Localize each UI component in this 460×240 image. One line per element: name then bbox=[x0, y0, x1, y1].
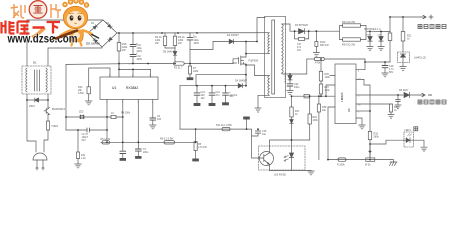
diode D5 bbox=[404, 92, 409, 97]
ground bottom rail bbox=[390, 160, 398, 166]
svg-text:100u: 100u bbox=[294, 86, 300, 89]
transistor Q2 bbox=[259, 146, 274, 171]
svg-text:R 100k: R 100k bbox=[337, 164, 345, 167]
IC U1 RX3842 bbox=[100, 77, 158, 100]
resistor R7 bbox=[187, 64, 194, 81]
svg-text:U4: U4 bbox=[347, 108, 351, 112]
TVS ZD22 bbox=[378, 31, 384, 50]
wire pin7 junction bbox=[119, 64, 151, 78]
wire bottom rail bbox=[328, 159, 391, 161]
svg-text:R2 51.7: R2 51.7 bbox=[174, 67, 183, 70]
svg-text:04V: 04V bbox=[82, 139, 87, 142]
svg-text:100k: 100k bbox=[313, 119, 319, 122]
mascot bbox=[61, 0, 99, 45]
svg-text:(U2 4N35): (U2 4N35) bbox=[274, 173, 286, 177]
bridge rectifier D1-D4 bbox=[88, 20, 117, 47]
wire pin3 chain bbox=[137, 100, 139, 143]
svg-text:470k: 470k bbox=[315, 62, 321, 65]
svg-text:400V: 400V bbox=[137, 58, 143, 61]
wire B1 bottom left lead bbox=[27, 94, 36, 152]
capacitor C8 bbox=[222, 86, 229, 106]
svg-text:LM324: LM324 bbox=[340, 92, 344, 102]
resistor R9 bbox=[111, 115, 116, 118]
resistor R4 bbox=[173, 33, 176, 52]
snubber loop C17 bbox=[295, 31, 309, 40]
capacitor C7 bbox=[135, 142, 141, 159]
svg-text:510 10-1 0.5W: 510 10-1 0.5W bbox=[216, 124, 232, 127]
LED U2 bbox=[284, 140, 294, 171]
wire gate pulldown bbox=[196, 75, 246, 86]
resistor R15 chain bbox=[117, 33, 121, 77]
svg-text:100k: 100k bbox=[193, 70, 199, 73]
wire pin comparator out bbox=[356, 110, 370, 112]
diode D4 1N4007 bbox=[238, 84, 242, 88]
svg-text:ZD1 1N5408: ZD1 1N5408 bbox=[86, 43, 100, 46]
svg-text:W 2k: W 2k bbox=[365, 164, 371, 167]
wire top AC line bbox=[27, 19, 103, 21]
svg-text:RX3842: RX3842 bbox=[126, 86, 138, 90]
potentiometer VR bbox=[366, 145, 375, 162]
svg-text:0.5W: 0.5W bbox=[78, 92, 84, 95]
svg-text:D4 1N4007: D4 1N4007 bbox=[235, 80, 248, 83]
AC plug bbox=[33, 153, 47, 170]
resistor R25 470k bbox=[307, 57, 365, 60]
node battery negative label bbox=[418, 100, 446, 104]
regulator LM431 bbox=[398, 52, 410, 70]
diode D3 BYW29 bbox=[299, 29, 305, 34]
wire line 117 bbox=[66, 116, 123, 118]
connector arrow battery plus bbox=[421, 15, 433, 19]
capacitor C22 bbox=[287, 84, 293, 95]
wire rail B bbox=[180, 85, 246, 87]
svg-text:4.7k 1W: 4.7k 1W bbox=[198, 146, 208, 149]
svg-text:LM431 (Z): LM431 (Z) bbox=[414, 56, 426, 60]
resistor R6a bbox=[102, 141, 110, 144]
node battery positive label bbox=[418, 25, 446, 29]
transformer T1 aux winding bbox=[246, 65, 269, 108]
resistor Y302 bbox=[44, 121, 50, 152]
op-amp U4 LM324 bbox=[335, 64, 356, 124]
resistor R11 bbox=[75, 130, 81, 168]
connector arrow battery minus bbox=[420, 93, 432, 96]
resistors R23 R24 parallel bbox=[337, 24, 390, 41]
capacitor C13 bbox=[194, 86, 201, 106]
wire pin2 bbox=[122, 100, 124, 152]
logo char zhao bbox=[11, 4, 26, 18]
capacitor C14 bbox=[209, 86, 216, 106]
brush stroke bbox=[56, 31, 77, 39]
svg-text:ZD 1N4741: ZD 1N4741 bbox=[285, 72, 287, 84]
svg-text:ZD4: ZD4 bbox=[29, 104, 35, 108]
logo seal circle bbox=[29, 1, 47, 19]
resistor R13 bbox=[222, 127, 230, 130]
ground aux bbox=[255, 108, 261, 112]
watermark logo bbox=[2, 0, 99, 45]
svg-text:220u: 220u bbox=[143, 151, 149, 154]
diode D8 1N4148 bbox=[173, 52, 177, 62]
svg-text:R8 100k: R8 100k bbox=[121, 112, 131, 115]
wire MOSFET drain bbox=[245, 42, 247, 58]
wire pin13 bbox=[356, 79, 370, 111]
svg-text:FQP630: FQP630 bbox=[249, 59, 259, 63]
svg-text:ZD2: ZD2 bbox=[79, 111, 84, 114]
resistor R29 bbox=[317, 96, 320, 159]
svg-text:Y302: Y302 bbox=[51, 124, 58, 128]
svg-text:1kV: 1kV bbox=[201, 97, 206, 100]
LED1 bbox=[404, 132, 427, 151]
red text xia bbox=[47, 22, 61, 34]
transformer T1 primary winding bbox=[246, 33, 269, 54]
capacitor C5 bbox=[120, 151, 126, 161]
resistor R27 bbox=[319, 81, 322, 96]
resistor R10 bbox=[86, 87, 92, 105]
svg-text:47u: 47u bbox=[216, 94, 221, 97]
svg-text:10u: 10u bbox=[262, 133, 267, 136]
wire rail 129 feed bbox=[179, 86, 181, 129]
wire snubber top bbox=[257, 18, 265, 42]
wire Q2 emitter bbox=[270, 170, 312, 172]
resistor R34 bbox=[356, 104, 394, 118]
svg-text:50V: 50V bbox=[230, 95, 235, 98]
wire battery negative line bbox=[356, 94, 420, 96]
resistor R5 bbox=[192, 129, 199, 161]
diode D2 FR207 bbox=[213, 39, 257, 43]
resistor R6 bbox=[164, 141, 175, 144]
svg-text:U1: U1 bbox=[112, 86, 116, 90]
wire B1 right top lead bbox=[48, 47, 102, 66]
capacitor C19 bbox=[382, 62, 388, 77]
svg-text:100k: 100k bbox=[325, 76, 331, 79]
capacitor C10/C12 chain bbox=[130, 33, 136, 64]
svg-text:LED1: LED1 bbox=[405, 129, 412, 132]
secondary rail bbox=[290, 30, 337, 32]
transistor BCR6001 bbox=[44, 107, 50, 121]
optocoupler U2 box bbox=[259, 146, 306, 170]
zener ZD2 bbox=[80, 115, 84, 119]
transformer T1 secondary winding bbox=[282, 24, 307, 74]
svg-text:1.2k: 1.2k bbox=[81, 157, 86, 160]
ground emitter bbox=[308, 171, 314, 175]
resistor R2 bbox=[148, 62, 190, 65]
svg-text:D8 1N4148: D8 1N4148 bbox=[163, 51, 176, 54]
transformer T1 core bbox=[272, 20, 275, 94]
component K1 box bbox=[388, 32, 392, 63]
wire line 130 bbox=[66, 129, 107, 131]
wire to battery plus bbox=[390, 17, 421, 32]
svg-text:110k: 110k bbox=[325, 89, 331, 92]
svg-text:R6 5.1 0.5W: R6 5.1 0.5W bbox=[160, 138, 174, 141]
svg-text:SW(T819)4-1 C: SW(T819)4-1 C bbox=[364, 28, 381, 31]
svg-text:1kV: 1kV bbox=[297, 49, 302, 52]
main DC+ rail bbox=[117, 32, 269, 34]
transistor Q1 FQP630 bbox=[233, 56, 246, 65]
wire pin8 bbox=[89, 68, 110, 87]
logo char pian bbox=[51, 4, 61, 18]
capacitor C18 bbox=[313, 31, 319, 56]
wire Q2 collector bbox=[270, 140, 310, 146]
diode ZD4 bbox=[27, 98, 48, 102]
svg-text:560k: 560k bbox=[374, 136, 380, 139]
resistor R16 bbox=[308, 96, 311, 140]
red text ku bbox=[18, 22, 30, 34]
capacitor C4 bbox=[150, 118, 156, 129]
resistor R3 bbox=[163, 33, 175, 48]
resistor R18 zener chain bbox=[290, 96, 294, 140]
ground flipped bbox=[243, 117, 250, 130]
wire line 142 bbox=[101, 141, 196, 143]
capacitor C25 bbox=[395, 95, 401, 109]
orange swoosh bbox=[31, 26, 46, 39]
wire MOSFET source bbox=[244, 64, 247, 86]
svg-text:R5 1A 1k: R5 1A 1k bbox=[101, 138, 112, 141]
wire U4 left pins bbox=[292, 76, 336, 160]
transformer B1 bbox=[22, 66, 51, 94]
wire pin4 chain bbox=[152, 100, 154, 119]
svg-text:R23 2Ω 2W: R23 2Ω 2W bbox=[342, 21, 356, 24]
svg-text:D5 4A07: D5 4A07 bbox=[399, 89, 409, 92]
resistor R35 bbox=[338, 158, 346, 161]
resistor R21 bbox=[401, 17, 405, 52]
wire pin1 bbox=[106, 100, 108, 143]
svg-text:103: 103 bbox=[157, 118, 162, 121]
svg-text:50V: 50V bbox=[389, 71, 394, 74]
svg-text:R63 1W: R63 1W bbox=[320, 44, 329, 47]
zener ZD6 1N4741 bbox=[288, 74, 292, 84]
resistor R33 bbox=[368, 111, 371, 158]
capacitor C11 bbox=[87, 128, 89, 132]
transformer T1 bobbin bbox=[265, 16, 286, 97]
red text wei bbox=[2, 21, 15, 34]
svg-text:400V: 400V bbox=[194, 42, 200, 45]
wire B1 left top lead bbox=[26, 20, 28, 66]
svg-text:BCR6001: BCR6001 bbox=[52, 107, 65, 111]
svg-text:D2 FR207: D2 FR207 bbox=[227, 33, 239, 37]
wire LED feed bbox=[370, 140, 404, 144]
wire B1 bottom right lead bbox=[47, 94, 49, 107]
LED1 green label bbox=[414, 127, 418, 131]
resistor R26 bbox=[319, 59, 322, 81]
wire snubber feed bbox=[190, 42, 213, 50]
svg-text:D3 BYW29: D3 BYW29 bbox=[295, 23, 308, 27]
wire line 129 bbox=[180, 129, 259, 158]
wire vcc line bbox=[66, 64, 148, 131]
wire gate drive bbox=[190, 62, 237, 65]
capacitor C6 bbox=[187, 33, 193, 64]
red text yi bbox=[33, 26, 45, 29]
fuse box F2 bbox=[304, 94, 309, 98]
capacitor C15 bbox=[252, 129, 261, 136]
TVS ZD21 bbox=[367, 31, 373, 50]
svg-text:B1: B1 bbox=[33, 61, 37, 65]
ground U4 bbox=[356, 118, 365, 129]
svg-text:R24 2Ω 2W: R24 2Ω 2W bbox=[342, 44, 356, 47]
wire pin4 supply bbox=[356, 59, 390, 70]
